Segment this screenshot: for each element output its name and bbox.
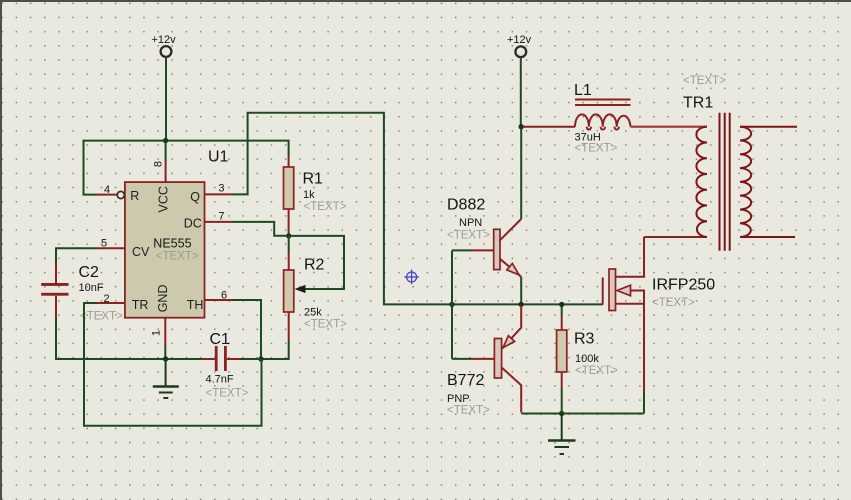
MOSFET IRFP250 — [603, 237, 716, 392]
wire MOSFET drain to TR1 primary bottom — [644, 236, 707, 238]
pin 4 stub with inversion circle — [97, 194, 117, 196]
pin 3 stub — [205, 193, 233, 195]
svg-text:NPN: NPN — [459, 217, 482, 229]
wire ground node to C1 left — [166, 358, 202, 360]
svg-text:TR1: TR1 — [683, 95, 713, 112]
svg-text:R2: R2 — [304, 257, 325, 274]
svg-text:1: 1 — [150, 330, 162, 336]
wire C1 right to node B — [240, 358, 261, 360]
svg-text:D882: D882 — [447, 197, 485, 214]
wire base bus Q1/Q2 — [451, 250, 453, 359]
svg-text:10nF: 10nF — [79, 282, 104, 294]
pin 2 stub — [97, 302, 125, 304]
transformer TR1 — [696, 113, 797, 251]
wire Q1 emitter to node F — [520, 277, 522, 305]
svg-text:2: 2 — [104, 293, 110, 305]
wire U1 pin1 GND to ground node — [164, 346, 166, 359]
wire +12V rail to Q1 collector — [520, 127, 522, 219]
wire U1 pin2 TR loop to node B — [84, 303, 262, 426]
node D bases junction — [449, 302, 454, 307]
svg-text:+12v: +12v — [152, 34, 177, 46]
wire C2 bottom to ground node — [56, 318, 163, 359]
svg-text:VCC: VCC — [157, 186, 171, 212]
svg-text:NE555: NE555 — [153, 237, 191, 251]
svg-text:1k: 1k — [303, 189, 315, 201]
source lead — [616, 304, 645, 392]
svg-text:R: R — [130, 189, 139, 203]
node A junction R1/R2/DC/wiper — [286, 233, 291, 238]
drain lead — [616, 237, 645, 277]
svg-text:<TEXT>: <TEXT> — [575, 365, 618, 377]
pin 8 stub — [165, 161, 167, 182]
wire L1 to TR1 primary — [631, 126, 708, 128]
wire R1 bottom to node A — [288, 232, 290, 237]
primary winding — [696, 127, 707, 237]
node C ground junction — [163, 356, 168, 361]
svg-text:<TEXT>: <TEXT> — [80, 311, 123, 323]
wire ground rail — [521, 413, 644, 415]
wiper loop wire — [289, 236, 344, 289]
svg-text:R1: R1 — [303, 171, 324, 188]
node R3 top junction — [559, 302, 564, 307]
power terminal +12V (left) — [152, 34, 177, 57]
svg-text:TR: TR — [132, 298, 149, 312]
potentiometer R2 — [284, 236, 348, 340]
wire VCC rail / pin4 loop — [84, 141, 289, 195]
node B junction TH/C1/R2/TR-loop — [258, 356, 263, 361]
transistor Q1 D882 NPN — [447, 197, 521, 277]
gate bar — [602, 278, 604, 305]
wiper arrow — [295, 285, 306, 293]
wire MOSFET source to ground rail — [643, 392, 645, 414]
svg-text:IRFP250: IRFP250 — [652, 277, 715, 294]
svg-text:5: 5 — [101, 238, 107, 250]
ground symbol (under 555) — [153, 359, 179, 398]
svg-text:4.7nF: 4.7nF — [206, 374, 234, 386]
power terminal +12V (right) — [507, 34, 532, 57]
frame border left — [0, 0, 2, 500]
substrate arm with arrow — [617, 291, 644, 304]
node VCC rail / pin 8 junction — [163, 138, 168, 143]
svg-text:100k: 100k — [575, 353, 599, 365]
svg-text:<TEXT>: <TEXT> — [206, 388, 249, 400]
wire R2 bottom to node B — [262, 340, 289, 359]
svg-text:<TEXT>: <TEXT> — [683, 75, 726, 87]
capacitor C2 — [41, 262, 123, 323]
svg-text:TH: TH — [187, 298, 204, 312]
wire U1 pin5 CV to C2 top — [56, 248, 97, 262]
svg-text:+12v: +12v — [507, 34, 532, 46]
frame border top — [0, 0, 851, 2]
core lines — [719, 113, 721, 251]
IC U1 NE555 — [97, 161, 233, 346]
svg-text:B772: B772 — [447, 372, 484, 389]
wire U1 pin3 Q to driver bases / gate bus — [233, 113, 603, 305]
pin 7 stub — [205, 221, 233, 223]
secondary bottom lead — [740, 236, 795, 238]
svg-text:PNP: PNP — [447, 393, 470, 405]
wire to Q2 base — [452, 358, 471, 360]
svg-text:25k: 25k — [304, 307, 322, 319]
svg-text:C2: C2 — [79, 264, 100, 281]
svg-text:6: 6 — [221, 290, 227, 302]
ground symbol (right) — [548, 414, 576, 455]
svg-text:R3: R3 — [574, 331, 595, 348]
wire to Q1 base — [452, 249, 471, 251]
wire VCC rail to U1 pin 8 — [165, 141, 167, 161]
channel bar — [609, 269, 616, 311]
pin 1 stub — [164, 318, 166, 346]
svg-text:U1: U1 — [208, 149, 229, 166]
svg-text:<TEXT>: <TEXT> — [156, 251, 199, 263]
svg-text:<TEXT>: <TEXT> — [304, 201, 347, 213]
wire U1 pin6 TH down to node B — [233, 300, 262, 359]
capacitor C1 — [202, 331, 249, 400]
pin 5 stub — [97, 247, 125, 249]
node G rail/R3/ground junction — [559, 411, 564, 416]
resistor R1 — [284, 156, 347, 232]
svg-text:8: 8 — [152, 161, 164, 167]
svg-text:<TEXT>: <TEXT> — [652, 297, 695, 309]
wire U1 pin7 DC to node A — [233, 222, 287, 236]
svg-text:L1: L1 — [574, 82, 592, 99]
svg-text:7: 7 — [218, 210, 224, 222]
resistor R3 — [557, 304, 619, 413]
pin 6 stub — [205, 299, 233, 301]
svg-text:<TEXT>: <TEXT> — [447, 230, 490, 242]
svg-text:CV: CV — [132, 245, 150, 259]
wire +12V left down to VCC rail — [165, 57, 167, 141]
svg-text:GND: GND — [156, 285, 170, 313]
svg-text:Q: Q — [190, 190, 200, 204]
svg-text:DC: DC — [184, 216, 202, 230]
secondary winding — [740, 127, 751, 237]
svg-text:C1: C1 — [210, 331, 231, 348]
wire +12V right down to node E — [520, 57, 522, 127]
svg-text:<TEXT>: <TEXT> — [575, 143, 618, 155]
svg-text:4: 4 — [104, 184, 110, 196]
svg-text:<TEXT>: <TEXT> — [447, 405, 490, 417]
node F emitters junction — [519, 302, 524, 307]
secondary top lead — [740, 126, 797, 128]
svg-text:<TEXT>: <TEXT> — [304, 319, 347, 331]
svg-text:3: 3 — [218, 183, 224, 195]
inductor L1 — [523, 82, 631, 155]
origin marker — [404, 270, 419, 285]
transistor Q2 B772 PNP — [447, 306, 521, 417]
node E junction +12V/L1/collector — [519, 124, 524, 129]
